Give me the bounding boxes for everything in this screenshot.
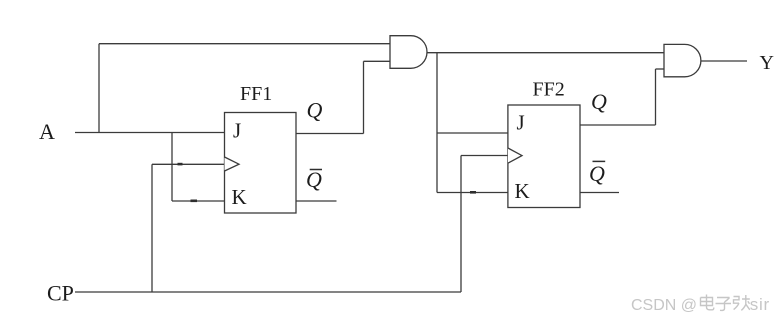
svg-text:sir: sir <box>750 295 770 314</box>
svg-text:A: A <box>39 119 55 144</box>
svg-text:CP: CP <box>47 281 74 306</box>
svg-text:J: J <box>517 111 525 135</box>
svg-text:FF2: FF2 <box>533 79 565 101</box>
svg-text:J: J <box>233 119 241 143</box>
svg-text:K: K <box>515 179 530 203</box>
svg-text:Q: Q <box>306 167 322 192</box>
svg-text:CSDN @: CSDN @ <box>631 297 697 314</box>
svg-text:K: K <box>232 185 247 209</box>
svg-text:Q: Q <box>307 98 323 123</box>
svg-text:FF1: FF1 <box>240 83 272 105</box>
svg-text:Y: Y <box>760 52 774 74</box>
svg-text:Q: Q <box>591 89 607 114</box>
svg-text:Q: Q <box>589 161 605 186</box>
